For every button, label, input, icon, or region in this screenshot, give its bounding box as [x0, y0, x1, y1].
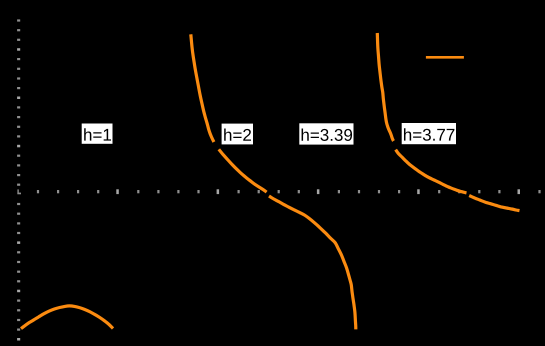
y-axis minor/major ticks [17, 19, 20, 340]
legend line [426, 56, 464, 59]
curve h=1 arc [21, 306, 113, 329]
curve h=2 upper branch [191, 34, 214, 142]
label h=3.39 [299, 123, 353, 144]
curve h=3.77 tail segment [469, 196, 519, 211]
curve h=2 middle segment [219, 149, 267, 192]
curve h=3.77 middle segment [396, 150, 467, 193]
curve h=3.77 upper branch [377, 33, 393, 141]
curve h=2 lower branch [269, 196, 356, 329]
label h=3.77 [402, 123, 456, 144]
label h=2 [222, 124, 253, 145]
origin L mark [17, 189, 21, 194]
x-axis minor/major ticks [37, 189, 541, 194]
label h=1 [82, 124, 113, 144]
